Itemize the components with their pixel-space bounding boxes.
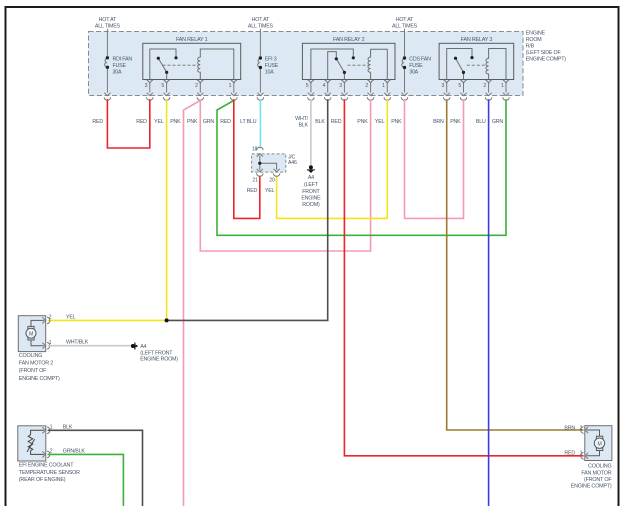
svg-text:COOLING: COOLING — [19, 353, 42, 359]
sensor: EFI ENGINE COOLANT TEMPERATURE SENSOR — [18, 426, 46, 461]
svg-text:BRN: BRN — [564, 426, 575, 432]
engine room R/B dashed box — [89, 32, 524, 96]
relay U2: FAN RELAY 2 box — [302, 43, 395, 79]
wire labels row — [92, 116, 503, 128]
svg-text:FAN RELAY 2: FAN RELAY 2 — [333, 37, 365, 43]
svg-text:18: 18 — [252, 147, 258, 153]
svg-text:ROOM: ROOM — [526, 37, 542, 43]
wire: feed stub + fuse CDS FAN — [402, 29, 405, 93]
wire labels near motor M2 — [66, 315, 89, 346]
svg-text:(FRONT OF: (FRONT OF — [19, 368, 47, 374]
box-exit connectors along dashed bottom — [104, 93, 111, 101]
svg-text:20: 20 — [269, 177, 275, 183]
svg-text:GRN: GRN — [203, 119, 215, 125]
svg-text:HOT AT: HOT AT — [252, 17, 270, 23]
svg-text:EFI 3: EFI 3 — [265, 57, 277, 63]
fuse RDI FAN dots — [106, 56, 109, 59]
svg-text:A4: A4 — [308, 175, 314, 181]
svg-text:2: 2 — [365, 83, 368, 89]
svg-text:3: 3 — [145, 83, 148, 89]
svg-text:5: 5 — [458, 83, 461, 89]
svg-text:HOT AT: HOT AT — [99, 17, 117, 23]
relay 1 internals — [150, 49, 234, 80]
svg-text:30A: 30A — [113, 69, 122, 75]
label: HOT AT ALL TIMES (CDS FAN) — [392, 17, 418, 30]
svg-text:1: 1 — [229, 83, 232, 89]
svg-text:RDI FAN: RDI FAN — [113, 57, 133, 63]
svg-text:5: 5 — [161, 83, 164, 89]
svg-text:1: 1 — [501, 83, 504, 89]
svg-text:RED: RED — [220, 119, 231, 125]
svg-text:A46: A46 — [288, 160, 297, 166]
svg-text:1: 1 — [382, 83, 385, 89]
svg-text:GRN: GRN — [492, 119, 504, 125]
svg-text:YEL: YEL — [66, 315, 76, 321]
relay U1: FAN RELAY 1 box — [143, 43, 241, 79]
J/C pin 18 connector — [257, 147, 264, 156]
svg-text:TEMPERATURE SENSOR: TEMPERATURE SENSOR — [19, 470, 80, 476]
relay 3 internals — [447, 49, 506, 80]
wire PNK: relay1 pin2 to relay2 pin2 — [200, 99, 370, 251]
svg-text:BLK: BLK — [63, 424, 73, 430]
wire YEL: J/C A46 pin 20 to relay2 pin1 — [277, 99, 388, 218]
svg-text:FAN RELAY 3: FAN RELAY 3 — [461, 37, 493, 43]
wire BRN: relay3 pin3 to cooling fan motor pin2 — [447, 99, 584, 430]
svg-text:LT BLU: LT BLU — [240, 119, 257, 125]
svg-text:BLK: BLK — [298, 122, 308, 128]
svg-text:(FRONT OF: (FRONT OF — [584, 477, 612, 483]
ground A4 (middle): relay2 pin5 — [309, 165, 313, 169]
svg-text:RED: RED — [92, 119, 103, 125]
relay 2 pin numbers — [306, 83, 385, 89]
svg-text:4: 4 — [323, 83, 326, 89]
J/C A46 junction box — [252, 154, 286, 172]
wire BLK: relay2 pin4 down and left to splice — [167, 99, 328, 320]
svg-text:10A: 10A — [265, 69, 274, 75]
wire PNK: relay1 pin2 branch down left edge to page bottom — [184, 101, 201, 506]
svg-text:GRN/BLK: GRN/BLK — [63, 448, 86, 454]
relay 1 pin connectors — [147, 80, 153, 83]
wire BLK: sensor pin1 right then down to page bottom — [48, 430, 143, 506]
svg-text:1: 1 — [580, 451, 583, 457]
relay 3 pin stems — [447, 83, 506, 93]
sensor caption — [19, 462, 80, 483]
svg-text:FAN MOTOR: FAN MOTOR — [581, 470, 611, 476]
wire YEL: relay1 pin5 down to splice and left to motor2 pin2 — [48, 99, 167, 320]
relay 3 pin numbers — [442, 83, 504, 89]
relay 2 pin stems — [311, 83, 387, 93]
relay 2 internals — [311, 49, 387, 80]
svg-text:BLU: BLU — [476, 119, 486, 125]
relay 1 pin numbers — [145, 83, 232, 89]
wire: feed stub + fuse EFI 3 — [258, 29, 261, 93]
relay 3 pin connectors — [444, 80, 450, 83]
label: CDS FAN FUSE 30A — [409, 57, 431, 76]
wire PNK: CDS fuse to relay3 pin5 — [405, 99, 464, 218]
svg-text:2: 2 — [49, 315, 52, 321]
wire RED: relay2 pin3 to cooling fan motor pin1 — [344, 99, 583, 456]
wire BLU: relay3 pin2 to page bottom — [488, 99, 490, 506]
svg-text:WHT/: WHT/ — [295, 116, 308, 122]
svg-text:FUSE: FUSE — [409, 63, 423, 69]
svg-text:2: 2 — [195, 83, 198, 89]
wire RED: relay1 pin1 to J/C A46 pin 21 — [234, 99, 260, 218]
wire RED: RDI fuse to relay1 pin3 — [107, 99, 149, 148]
motor M1 pin labels — [580, 426, 583, 457]
svg-text:2: 2 — [580, 426, 583, 432]
svg-text:M: M — [29, 332, 33, 338]
svg-text:PNK: PNK — [391, 119, 402, 125]
svg-text:A4: A4 — [140, 344, 146, 350]
svg-text:BRN: BRN — [433, 119, 444, 125]
label: HOT AT ALL TIMES (RDI FAN) — [95, 17, 121, 30]
svg-text:BLK: BLK — [315, 119, 325, 125]
svg-text:PNK: PNK — [357, 119, 368, 125]
svg-text:M: M — [597, 442, 601, 448]
label: EFI 3 FUSE 10A — [265, 57, 279, 76]
relay U3: FAN RELAY 3 box — [439, 43, 514, 79]
splice node — [165, 318, 169, 322]
svg-text:FAN RELAY 1: FAN RELAY 1 — [176, 37, 208, 43]
svg-text:EFI ENGINE COOLANT: EFI ENGINE COOLANT — [19, 462, 74, 468]
svg-text:(REAR OF ENGINE): (REAR OF ENGINE) — [19, 477, 66, 483]
wire GRN: relay1 pin1 branch to relay3 pin1 — [217, 99, 506, 235]
svg-text:FUSE: FUSE — [265, 63, 279, 69]
svg-text:ENGINE ROOM): ENGINE ROOM) — [140, 356, 178, 362]
svg-text:PNK: PNK — [170, 119, 181, 125]
ground A4 (left) — [131, 344, 135, 348]
label: RDI FAN FUSE 30A — [113, 57, 133, 76]
J/C pins 21,20 connectors — [257, 169, 264, 177]
label: ENGINE ROOM R/B — [526, 31, 567, 63]
svg-text:30A: 30A — [409, 69, 418, 75]
svg-text:ENGINE: ENGINE — [526, 31, 546, 37]
wire WHT/BLK: motor2 pin1 to ground A4 left — [48, 345, 131, 347]
wire: feed stub + fuse RDI FAN — [105, 29, 108, 93]
relay 2 pin connectors — [308, 80, 314, 83]
wire LT BLU: EFI3 fuse to J/C A46 pin 18 — [259, 99, 261, 148]
svg-text:PNK: PNK — [450, 119, 461, 125]
svg-text:RED: RED — [136, 119, 147, 125]
label: HOT AT ALL TIMES (EFI 3) — [248, 17, 274, 30]
motor M2 caption — [19, 353, 60, 382]
svg-text:RED: RED — [247, 188, 258, 194]
svg-text:RED: RED — [564, 451, 575, 457]
svg-text:FRONT: FRONT — [302, 189, 320, 195]
wire WHT/BLK: relay2 pin5 to ground A4 — [310, 99, 312, 165]
svg-text:5: 5 — [306, 83, 309, 89]
svg-text:3: 3 — [339, 83, 342, 89]
J/C labels — [252, 147, 297, 184]
svg-text:CDS FAN: CDS FAN — [409, 57, 431, 63]
svg-text:ENGINE COMPT): ENGINE COMPT) — [571, 484, 612, 490]
svg-text:R/B: R/B — [526, 44, 535, 50]
svg-text:(LEFT: (LEFT — [304, 182, 319, 188]
motor M1: COOLING FAN MOTOR (front) — [585, 426, 612, 461]
svg-text:WHT/BLK: WHT/BLK — [66, 340, 89, 346]
svg-text:YEL: YEL — [375, 119, 385, 125]
motor M2: COOLING FAN MOTOR 2 — [18, 316, 45, 352]
relay 1 pin stems to box exit — [150, 83, 234, 93]
svg-text:FAN MOTOR 2: FAN MOTOR 2 — [19, 361, 53, 367]
motor M2 pin labels — [49, 315, 52, 346]
svg-text:ENGINE: ENGINE — [301, 196, 321, 202]
svg-text:ENGINE COMPT): ENGINE COMPT) — [19, 376, 60, 382]
wire GRN/BLK: sensor pin2 right then down to page bottom — [48, 454, 124, 506]
svg-text:3: 3 — [442, 83, 445, 89]
svg-text:(LEFT SIDE OF: (LEFT SIDE OF — [526, 50, 562, 56]
svg-text:ROOM): ROOM) — [302, 202, 320, 208]
svg-text:YEL: YEL — [154, 119, 164, 125]
motor M1 caption — [571, 464, 613, 490]
svg-text:ENGINE COMPT): ENGINE COMPT) — [526, 57, 567, 63]
svg-text:RED: RED — [331, 119, 342, 125]
svg-text:FUSE: FUSE — [113, 63, 127, 69]
svg-text:HOT AT: HOT AT — [396, 17, 414, 23]
svg-text:21: 21 — [252, 177, 258, 183]
svg-text:2: 2 — [483, 83, 486, 89]
svg-text:PNK: PNK — [187, 119, 198, 125]
svg-text:YEL: YEL — [265, 188, 275, 194]
svg-text:COOLING: COOLING — [588, 464, 611, 470]
